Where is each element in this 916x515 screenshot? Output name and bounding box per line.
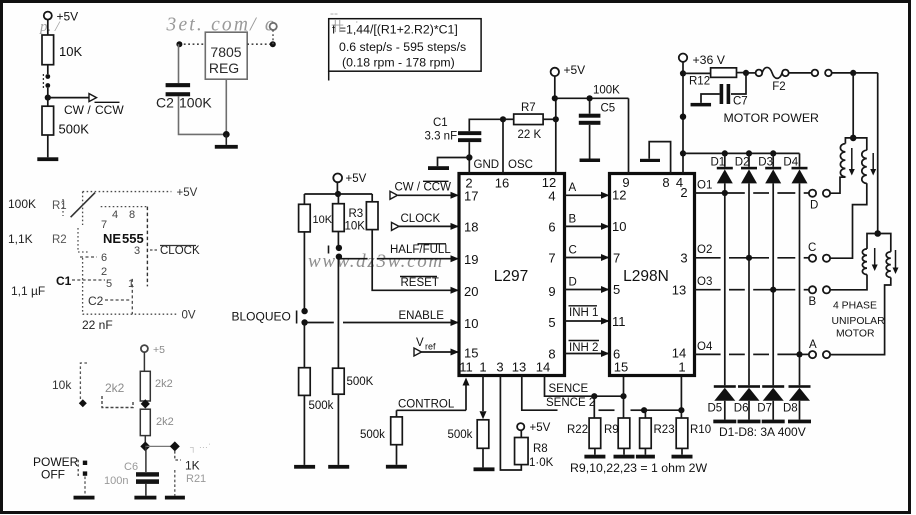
NE555 +5V rail (dotted) bbox=[83, 187, 198, 199]
wire column bbox=[799, 183, 801, 385]
svg-text:10K: 10K bbox=[313, 214, 333, 226]
wire CW/CCW out bbox=[48, 94, 97, 102]
wire bbox=[303, 323, 305, 368]
wire bbox=[337, 394, 339, 465]
node bbox=[680, 114, 686, 120]
connector D bbox=[809, 190, 830, 212]
wire phase A bbox=[565, 182, 610, 199]
wire SENCE2 to R10 bbox=[644, 409, 681, 411]
svg-text:2k2: 2k2 bbox=[105, 381, 125, 395]
ground bbox=[672, 455, 693, 459]
wire node row bbox=[145, 445, 175, 447]
trimmer wiper (dashed) bbox=[79, 363, 87, 407]
svg-text:O3: O3 bbox=[697, 276, 712, 288]
wire CLOCK input bbox=[392, 213, 460, 230]
svg-text:C7: C7 bbox=[733, 96, 748, 108]
svg-text:500k: 500k bbox=[448, 429, 473, 441]
diode D8 bbox=[783, 385, 811, 423]
ground bbox=[134, 496, 156, 500]
svg-text:D5: D5 bbox=[708, 403, 723, 415]
inductor (phase C winding) bbox=[853, 138, 867, 184]
svg-text:22 K: 22 K bbox=[518, 129, 542, 141]
+5 terminal bbox=[141, 344, 165, 356]
svg-text:F2: F2 bbox=[772, 81, 785, 93]
wire (dotted) bbox=[82, 258, 84, 314]
ground bbox=[74, 496, 95, 500]
svg-text:+5V: +5V bbox=[346, 173, 367, 185]
wire column bbox=[724, 183, 726, 385]
svg-text:1: 1 bbox=[128, 278, 134, 290]
svg-text:O2: O2 bbox=[697, 244, 712, 256]
capacitor C1 3.3nF bbox=[425, 117, 482, 158]
svg-text:10: 10 bbox=[464, 316, 478, 331]
svg-text:2k2: 2k2 bbox=[155, 378, 173, 390]
inductor (phase A winding) bbox=[878, 234, 891, 278]
pin 19 label bbox=[464, 252, 478, 267]
7805 regulator U2 bbox=[205, 32, 247, 79]
svg-text:CCW: CCW bbox=[95, 103, 124, 117]
wire phase C bbox=[565, 245, 610, 262]
NE555 box top (dotted) bbox=[101, 206, 148, 208]
connector B bbox=[809, 286, 831, 308]
+5V terminal (osc) bbox=[551, 63, 586, 98]
wire O4 row bbox=[695, 341, 809, 358]
pin 14 label bbox=[672, 346, 686, 361]
wire bbox=[623, 448, 625, 454]
pin 9 label bbox=[622, 175, 629, 190]
svg-text:500K: 500K bbox=[347, 376, 374, 388]
pin 4 label bbox=[548, 189, 555, 204]
wire pin1 to 0V (dashed) bbox=[131, 279, 133, 314]
connector A bbox=[809, 339, 830, 358]
svg-text:CW /: CW / bbox=[64, 103, 91, 117]
pin 7 bbox=[101, 219, 107, 231]
wire C1 to OSC bbox=[469, 119, 503, 131]
pin 13 label bbox=[512, 360, 526, 375]
wire bbox=[178, 44, 180, 83]
current arrow bbox=[870, 153, 876, 176]
node bbox=[466, 154, 472, 160]
wire bbox=[47, 135, 49, 157]
svg-text:16: 16 bbox=[495, 176, 509, 191]
label 500k bbox=[309, 400, 334, 412]
wire bbox=[594, 448, 596, 454]
resistor 1K R21 (dashed) bbox=[175, 451, 206, 496]
svg-text:CLOCK: CLOCK bbox=[160, 245, 200, 257]
node bbox=[850, 70, 856, 76]
resistor 10K (reset pull-up) bbox=[366, 194, 378, 230]
wire O1 row bbox=[695, 180, 809, 197]
ground (GND pin) bbox=[428, 158, 469, 171]
node bbox=[552, 95, 558, 101]
node bbox=[641, 407, 647, 413]
pin 2 label bbox=[465, 176, 472, 191]
current arrow bbox=[872, 248, 878, 271]
svg-text:INH 1: INH 1 bbox=[569, 307, 598, 319]
switch POWER OFF bbox=[33, 455, 87, 496]
ground bbox=[474, 467, 495, 471]
svg-text:4: 4 bbox=[548, 189, 555, 204]
pin 13 label bbox=[672, 283, 686, 298]
formula box bbox=[329, 19, 481, 81]
pin 3 label bbox=[496, 360, 503, 375]
svg-text:13: 13 bbox=[672, 283, 686, 298]
svg-text:20: 20 bbox=[464, 284, 478, 299]
+5V output terminal bbox=[270, 23, 277, 44]
switch HALF/FULL select bbox=[329, 245, 343, 260]
svg-text:2: 2 bbox=[101, 266, 107, 278]
svg-text:10: 10 bbox=[612, 219, 626, 234]
svg-text:14: 14 bbox=[536, 360, 550, 375]
svg-text:15: 15 bbox=[614, 360, 628, 375]
wire RESET input bbox=[372, 230, 459, 294]
ground bbox=[37, 157, 58, 161]
svg-text:12: 12 bbox=[612, 188, 626, 203]
capacitor C2 (555) bbox=[88, 294, 130, 308]
svg-text:B: B bbox=[809, 296, 817, 308]
wire bbox=[179, 96, 227, 134]
svg-text:MOTOR POWER: MOTOR POWER bbox=[724, 111, 820, 125]
svg-text:+5V: +5V bbox=[57, 10, 79, 24]
wire L298N pin15 col bbox=[623, 376, 625, 397]
svg-text:10k: 10k bbox=[52, 378, 72, 392]
pin 11 label bbox=[459, 360, 473, 375]
resistor 500k (col A) bbox=[299, 368, 311, 396]
wire bbox=[47, 65, 49, 74]
svg-text:8: 8 bbox=[129, 209, 135, 221]
node bbox=[141, 399, 150, 408]
svg-text:C2: C2 bbox=[88, 294, 104, 308]
wire to coil bbox=[830, 278, 891, 355]
svg-text:O1: O1 bbox=[697, 180, 712, 192]
svg-text:5: 5 bbox=[548, 315, 555, 330]
svg-text:0V: 0V bbox=[182, 310, 196, 322]
svg-text:9: 9 bbox=[548, 284, 555, 299]
node bbox=[335, 191, 341, 197]
wire 7805 output (dotted) bbox=[247, 43, 273, 45]
svg-text:(0.18 rpm - 178 rpm): (0.18 rpm - 178 rpm) bbox=[342, 56, 455, 70]
label sense values bbox=[570, 461, 707, 475]
svg-text:7805: 7805 bbox=[210, 44, 241, 60]
diode D7 bbox=[757, 385, 784, 423]
svg-text:19: 19 bbox=[464, 252, 478, 267]
svg-text:3.3 nF: 3.3 nF bbox=[425, 131, 458, 143]
svg-text:1,1K: 1,1K bbox=[8, 232, 33, 246]
svg-text:5: 5 bbox=[106, 278, 112, 290]
svg-text:R7: R7 bbox=[521, 102, 536, 114]
svg-text:--: -- bbox=[330, 6, 338, 20]
pin 5 bbox=[106, 278, 112, 290]
pin 12 label bbox=[612, 188, 626, 203]
diode D5 bbox=[708, 385, 737, 423]
pin 7 label bbox=[548, 251, 555, 266]
svg-text:10K: 10K bbox=[59, 44, 82, 59]
svg-text:5: 5 bbox=[613, 282, 620, 297]
node bbox=[170, 441, 180, 451]
connector C bbox=[808, 242, 830, 262]
pin 6 bbox=[80, 252, 107, 264]
pin 5 label bbox=[548, 315, 555, 330]
NE555 U3 bbox=[103, 231, 144, 246]
node bbox=[680, 70, 686, 76]
resistor R12 bbox=[683, 68, 737, 88]
svg-text:D1: D1 bbox=[711, 157, 726, 169]
wire bbox=[737, 72, 747, 74]
svg-text:1·0K: 1·0K bbox=[529, 457, 554, 469]
resistor 10K (upper divider) bbox=[42, 35, 82, 65]
node CW/CCW tap bbox=[45, 88, 51, 101]
label 100K R1 bbox=[8, 197, 67, 212]
wire phase B bbox=[565, 214, 610, 230]
svg-text:L297: L297 bbox=[494, 268, 528, 285]
wire +36V col bbox=[682, 62, 684, 174]
svg-text:2: 2 bbox=[680, 185, 687, 200]
wire phase D bbox=[565, 277, 610, 294]
svg-text:1,1 µF: 1,1 µF bbox=[11, 284, 45, 298]
diode D2 bbox=[735, 153, 757, 183]
wire bbox=[396, 445, 398, 465]
ground bbox=[636, 455, 655, 459]
pin 3 / CLOCK bbox=[134, 245, 200, 257]
svg-text:A: A bbox=[809, 339, 817, 351]
svg-text:C1: C1 bbox=[56, 274, 72, 288]
svg-text:3: 3 bbox=[134, 245, 140, 257]
svg-text:O4: O4 bbox=[697, 341, 713, 353]
ground (C5) bbox=[580, 159, 601, 163]
wire half/full switch bbox=[337, 232, 339, 247]
label 2k2 trimmer bbox=[105, 381, 125, 395]
svg-text:7: 7 bbox=[101, 219, 107, 231]
capacitor C2 bbox=[156, 83, 212, 110]
svg-text:C6: C6 bbox=[124, 461, 138, 473]
svg-text:+5V: +5V bbox=[564, 63, 586, 77]
wire O2 row bbox=[695, 244, 809, 261]
svg-text:555: 555 bbox=[122, 231, 144, 246]
svg-text:CCW: CCW bbox=[424, 182, 452, 194]
wire INH 1 bbox=[565, 306, 610, 325]
svg-text:CONTROL: CONTROL bbox=[398, 399, 455, 411]
svg-text:6: 6 bbox=[101, 252, 107, 264]
svg-text:7: 7 bbox=[613, 251, 620, 266]
label SENCE bbox=[549, 383, 589, 395]
switch (divider tap) bbox=[43, 74, 50, 88]
wire bbox=[543, 118, 556, 120]
wire pin11 / CONTROL bbox=[397, 378, 470, 411]
pin 16 label bbox=[495, 176, 509, 191]
node bbox=[553, 116, 559, 122]
svg-text:REG: REG bbox=[209, 60, 239, 76]
pin 11 label bbox=[612, 314, 626, 329]
svg-text:R2: R2 bbox=[52, 234, 67, 246]
+5V rail bbox=[304, 193, 372, 195]
wire bbox=[303, 232, 305, 309]
wire pin13 SENCE2 bbox=[522, 376, 558, 411]
svg-text:0.6 step/s - 595 steps/s: 0.6 step/s - 595 steps/s bbox=[339, 40, 466, 54]
pin 18 label bbox=[464, 220, 478, 235]
wire pin12 col bbox=[555, 119, 557, 173]
node bbox=[850, 135, 857, 142]
svg-text:C: C bbox=[808, 242, 816, 254]
label MOTOR POWER bbox=[724, 111, 820, 125]
wire column bbox=[748, 183, 750, 385]
label OSC bbox=[508, 159, 533, 171]
svg-text:D2: D2 bbox=[735, 157, 750, 169]
pin 8 label bbox=[548, 347, 555, 362]
resistor 500K (col B) bbox=[333, 368, 374, 394]
svg-text:11: 11 bbox=[612, 314, 626, 329]
+5V rail (osc) bbox=[555, 85, 629, 99]
wire phase riser bbox=[852, 73, 854, 138]
svg-text:D3: D3 bbox=[758, 157, 773, 169]
wire Vref input bbox=[414, 337, 459, 356]
svg-text:A: A bbox=[569, 182, 577, 194]
label motor bbox=[832, 301, 886, 340]
pin 20 label bbox=[464, 284, 478, 299]
svg-text:R8: R8 bbox=[533, 443, 548, 455]
capacitor C6 bbox=[104, 446, 159, 495]
svg-text:R9: R9 bbox=[604, 424, 619, 436]
svg-text:6: 6 bbox=[548, 220, 555, 235]
svg-text:NE: NE bbox=[103, 231, 121, 246]
svg-text:CW /: CW / bbox=[395, 182, 421, 194]
label 22 nF bbox=[82, 318, 113, 332]
svg-text:100K: 100K bbox=[8, 197, 36, 211]
resistor 500K (lower divider) bbox=[42, 98, 89, 137]
svg-text:4 PHASE: 4 PHASE bbox=[833, 301, 877, 312]
node 7805 input bbox=[176, 41, 182, 47]
svg-text:1K: 1K bbox=[185, 459, 200, 473]
svg-text:500K: 500K bbox=[59, 122, 90, 137]
diode D4 bbox=[783, 153, 807, 183]
node bbox=[680, 150, 686, 156]
+5V supply terminal bbox=[44, 10, 78, 36]
svg-text:C5: C5 bbox=[601, 103, 616, 115]
op-amp U4 L298N body bbox=[610, 174, 695, 376]
svg-text:100K: 100K bbox=[179, 95, 212, 111]
node bbox=[140, 441, 150, 451]
svg-text:CLOCK: CLOCK bbox=[401, 213, 441, 225]
svg-text:D: D bbox=[569, 277, 577, 289]
svg-text:R23: R23 bbox=[654, 424, 675, 436]
label diode values bbox=[719, 425, 806, 439]
node bbox=[587, 95, 593, 101]
svg-text:100n: 100n bbox=[104, 475, 128, 487]
wire to coil bbox=[830, 183, 867, 258]
svg-text:ʾ: ʾ bbox=[355, 20, 359, 32]
svg-text:C2: C2 bbox=[156, 95, 174, 111]
current arrow bbox=[893, 250, 899, 274]
svg-text:RESET: RESET bbox=[401, 277, 439, 289]
pin 2 bbox=[101, 266, 107, 278]
svg-text:+36 V: +36 V bbox=[693, 53, 726, 67]
svg-text:ref: ref bbox=[425, 342, 436, 352]
svg-text:ENABLE: ENABLE bbox=[399, 310, 445, 322]
wire (dotted) bbox=[82, 192, 84, 225]
node bbox=[746, 150, 752, 156]
svg-text:D: D bbox=[810, 200, 818, 212]
pin 12 label bbox=[542, 175, 556, 190]
node 7805 output bbox=[270, 41, 276, 47]
node bbox=[874, 230, 881, 237]
svg-text:C: C bbox=[569, 245, 577, 257]
svg-text:18: 18 bbox=[464, 220, 478, 235]
node bbox=[223, 131, 230, 138]
wire GND pin2 bbox=[468, 158, 470, 174]
wire diode rail bbox=[683, 152, 800, 154]
svg-text:R3: R3 bbox=[349, 208, 364, 220]
wire to coil bbox=[830, 275, 867, 290]
node bbox=[722, 150, 728, 156]
node bbox=[620, 393, 626, 399]
svg-text:11: 11 bbox=[459, 360, 473, 375]
pin 15 label bbox=[464, 346, 478, 361]
capacitor C7 bbox=[701, 73, 748, 108]
ground bbox=[386, 465, 407, 469]
svg-text:14: 14 bbox=[672, 346, 686, 361]
svg-text:3: 3 bbox=[680, 251, 687, 266]
node OSC bbox=[500, 116, 506, 122]
svg-text:B: B bbox=[569, 214, 577, 226]
pin 2 label bbox=[680, 185, 687, 200]
svg-text:2k2: 2k2 bbox=[156, 416, 174, 428]
pin 9 label bbox=[548, 284, 555, 299]
svg-text:100K: 100K bbox=[593, 85, 620, 97]
svg-text:3: 3 bbox=[496, 360, 503, 375]
ground bbox=[165, 496, 185, 500]
svg-text:15: 15 bbox=[464, 346, 478, 361]
svg-text:22 nF: 22 nF bbox=[82, 318, 113, 332]
svg-text:D7: D7 bbox=[757, 403, 772, 415]
label GND bbox=[474, 159, 500, 171]
wire HALF/FULL input bbox=[339, 244, 459, 262]
diode D6 bbox=[734, 385, 761, 423]
+5V terminal (R8) bbox=[517, 422, 551, 438]
label SENCE 2 bbox=[546, 397, 595, 409]
svg-text:SENCE 2: SENCE 2 bbox=[546, 397, 595, 409]
wire bbox=[143, 352, 145, 371]
pin 10 label bbox=[612, 219, 626, 234]
svg-text:10K: 10K bbox=[345, 221, 366, 233]
pin 6 label bbox=[613, 347, 620, 362]
svg-text:17: 17 bbox=[464, 189, 478, 204]
connector (motor power) bbox=[789, 70, 832, 77]
wire pin14 SENCE bbox=[545, 376, 624, 397]
svg-text:L298N: L298N bbox=[623, 268, 669, 285]
resistor R8 10K bbox=[515, 438, 554, 470]
potentiometer R1 bbox=[63, 193, 95, 218]
fuse F2 bbox=[746, 67, 789, 93]
svg-text:R12: R12 bbox=[689, 76, 710, 88]
svg-text:GND: GND bbox=[474, 159, 500, 171]
wire far-right riser bbox=[877, 73, 879, 234]
wire L298N pin1 col bbox=[680, 376, 682, 411]
wire SENCE2 dashes bbox=[599, 409, 645, 411]
svg-text:D8: D8 bbox=[783, 403, 798, 415]
ground (pin8) bbox=[640, 142, 671, 174]
node bbox=[678, 407, 684, 413]
svg-text:BLOQUEO: BLOQUEO bbox=[232, 310, 291, 324]
svg-text:R9,10,22,23 = 1 ohm 2W: R9,10,22,23 = 1 ohm 2W bbox=[570, 461, 707, 475]
wire INH 2 bbox=[565, 341, 610, 358]
resistor 10K (enable pull-up) bbox=[299, 194, 333, 232]
pin 1 bbox=[128, 278, 134, 290]
trimmer hook (dashed) bbox=[102, 396, 133, 408]
wire pin1 col bbox=[480, 376, 487, 420]
svg-text:INH 2: INH 2 bbox=[569, 342, 598, 354]
NE555 box right (dashed) bbox=[146, 207, 148, 287]
pin 14 label bbox=[536, 360, 550, 375]
wire OSC pin16 bbox=[502, 119, 504, 173]
